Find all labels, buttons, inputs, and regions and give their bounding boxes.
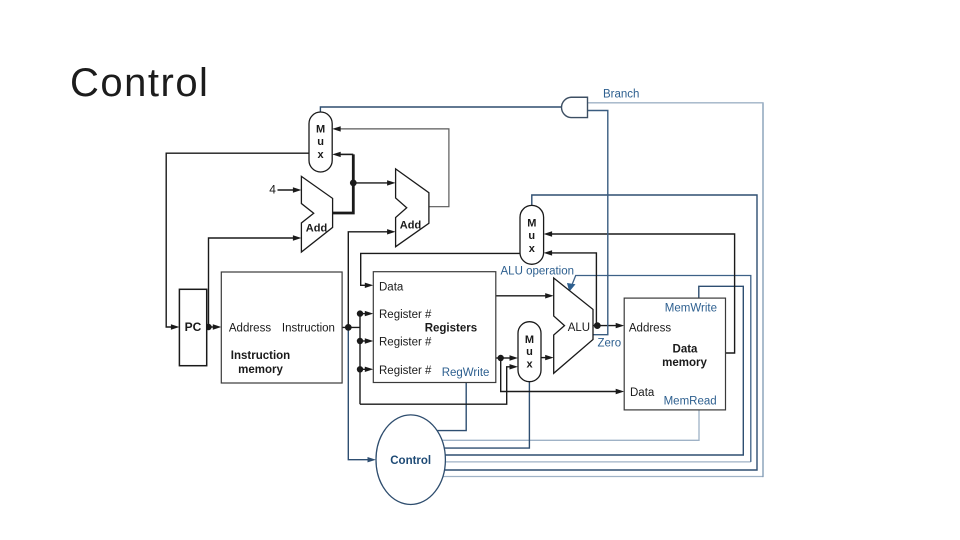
wire read register 2 xyxy=(360,338,373,343)
mux M1 (PCSrc) xyxy=(309,112,332,172)
title Control xyxy=(70,61,209,105)
node ALU result junction xyxy=(594,322,601,329)
svg-text:ALU operation: ALU operation xyxy=(501,266,575,278)
wire read data 1 to ALU xyxy=(496,293,554,298)
wire AND gate output to Mux1 select xyxy=(320,107,561,112)
svg-text:4: 4 xyxy=(269,183,276,197)
node write register junction xyxy=(357,366,363,372)
svg-text:x: x xyxy=(318,149,325,161)
mux M2 (MemtoReg) xyxy=(520,205,544,264)
wire Add1 output to Mux1 (PC+4, thick) xyxy=(332,152,353,213)
svg-text:Add: Add xyxy=(400,220,421,232)
wire Add2 output to Mux1 xyxy=(332,126,449,207)
wire Mux2 select control xyxy=(410,195,757,470)
svg-text:M: M xyxy=(527,218,536,230)
svg-text:Data: Data xyxy=(379,282,404,294)
adder Add1 (PC+4) xyxy=(301,176,332,252)
svg-text:Zero: Zero xyxy=(598,338,622,350)
wire ALU operation control xyxy=(410,276,751,462)
wire Mux3 output to ALU xyxy=(541,355,554,360)
svg-text:Control: Control xyxy=(390,455,431,467)
svg-text:Control: Control xyxy=(70,61,209,105)
mux M3 (ALUSrc) xyxy=(518,322,541,382)
label ALU operation xyxy=(501,266,575,278)
wire constant 4 to Add1 xyxy=(278,187,302,192)
svg-text:x: x xyxy=(529,243,536,255)
node read data 2 junction xyxy=(498,355,504,361)
svg-text:MemRead: MemRead xyxy=(664,395,717,407)
svg-text:memory: memory xyxy=(662,357,707,369)
svg-text:Data: Data xyxy=(673,343,699,355)
wire PC+4 to Add2 xyxy=(353,180,395,185)
svg-text:x: x xyxy=(526,358,533,370)
svg-text:Register #: Register # xyxy=(379,309,432,321)
svg-text:Address: Address xyxy=(629,323,671,335)
node register 2 junction xyxy=(357,338,363,344)
svg-text:u: u xyxy=(317,136,324,148)
node PC+4 junction xyxy=(350,180,357,187)
svg-text:Address: Address xyxy=(229,323,271,335)
node register 1 junction xyxy=(357,310,363,316)
svg-text:M: M xyxy=(316,124,325,136)
wire ALU result to data memory address xyxy=(593,323,624,328)
wire PC to Add1 xyxy=(209,235,302,327)
wire Mux2 output writeback to registers xyxy=(361,253,521,288)
wire instruction output xyxy=(342,326,360,328)
label Zero xyxy=(598,338,622,350)
wire write data to data memory xyxy=(501,358,625,394)
wire immediate to Mux3 xyxy=(360,364,518,404)
registers block xyxy=(373,272,496,383)
wire read data 2 to Mux3 xyxy=(496,355,518,360)
svg-text:memory: memory xyxy=(238,364,283,376)
wire PC to instruction memory xyxy=(207,324,222,329)
wire RegWrite control xyxy=(410,383,466,431)
node instruction junction xyxy=(345,324,352,331)
svg-text:Instruction: Instruction xyxy=(231,350,290,362)
svg-text:u: u xyxy=(526,346,533,358)
svg-text:ALU: ALU xyxy=(568,322,590,334)
node PC output junction xyxy=(205,324,211,330)
svg-text:PC: PC xyxy=(185,320,202,334)
register PC xyxy=(179,289,206,365)
wire memory read data to Mux2 xyxy=(544,231,735,353)
svg-text:Register #: Register # xyxy=(379,365,432,377)
wire control input from instruction xyxy=(348,327,376,462)
wire register number fan vertical xyxy=(359,314,361,405)
wire Zero to AND gate xyxy=(588,111,608,335)
svg-text:Instruction: Instruction xyxy=(282,323,335,335)
wire read register 1 xyxy=(360,311,373,316)
svg-text:Register #: Register # xyxy=(379,337,432,349)
wire write register xyxy=(360,367,373,372)
adder Add2 (branch target) xyxy=(396,169,429,247)
svg-text:MemWrite: MemWrite xyxy=(665,303,717,315)
label Branch xyxy=(603,88,639,100)
wire branch offset to Add2 xyxy=(348,229,395,327)
svg-text:Branch: Branch xyxy=(603,88,639,100)
wire Mux1 output to PC xyxy=(166,153,309,330)
svg-text:M: M xyxy=(525,334,534,346)
svg-text:Data: Data xyxy=(630,387,655,399)
wire Branch control xyxy=(410,103,764,477)
wire ALU result to Mux2 xyxy=(544,250,597,325)
svg-text:u: u xyxy=(528,230,535,242)
wire Mux3 select control xyxy=(410,382,529,448)
data memory block xyxy=(624,298,725,410)
ALU U2 xyxy=(554,278,593,373)
instruction memory block xyxy=(221,272,342,383)
svg-text:RegWrite: RegWrite xyxy=(442,367,490,379)
wire MemRead control xyxy=(410,410,699,440)
control unit U1 (ellipse) xyxy=(376,415,445,505)
svg-text:Add: Add xyxy=(306,223,327,235)
wire MemWrite control xyxy=(410,286,743,455)
constant 4 xyxy=(269,183,276,197)
AND gate U3 (branch) xyxy=(562,97,588,117)
svg-text:Registers: Registers xyxy=(425,323,477,335)
